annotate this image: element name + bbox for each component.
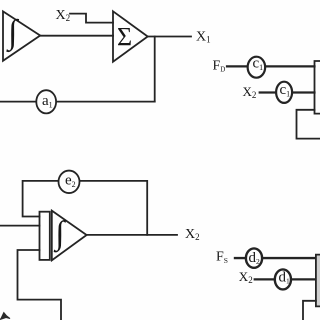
wire feedback horizontal through a1: [0, 101, 155, 103]
box D1 (cropped at right edge): [315, 61, 320, 114]
wire FD to box: [227, 65, 315, 67]
wire X2 input to summer: [70, 14, 113, 23]
coefficient a1 circle: [36, 90, 56, 113]
wire input 2 bottom-left integrator: [0, 225, 40, 227]
wire U3 output to X2: [87, 234, 177, 236]
wire feedback vertical from output junction: [154, 37, 156, 102]
integrator U1 triangle: [3, 11, 40, 60]
summer U2 triangle: [113, 11, 148, 61]
box D2 grey (cropped at right edge): [316, 255, 320, 307]
coefficient e2 circle: [59, 171, 80, 194]
coefficient d2 circle: [246, 248, 262, 267]
arrow bottom-left corner: [0, 313, 10, 320]
svg-text:Σ: Σ: [117, 23, 132, 52]
wire summer output to X1: [148, 36, 191, 38]
coefficient c1 circle lower: [276, 82, 292, 103]
wire X2 to box upper-right: [260, 91, 315, 93]
integrator U3 triangle: [52, 211, 87, 261]
feedback rectangle D1: [297, 110, 320, 139]
coefficient d1 circle: [275, 269, 291, 289]
wire X2 to box lower-right: [255, 278, 316, 280]
integrator U3 input box: [40, 212, 50, 260]
feedback rectangle D2: [303, 301, 316, 320]
wire input 3 bottom-left integrator: [18, 250, 62, 320]
wire e2 loop left and top and right: [23, 181, 148, 235]
wire U1 output to summer: [40, 35, 113, 37]
wire FS to box: [235, 257, 316, 259]
coefficient c1 circle upper: [248, 57, 266, 78]
